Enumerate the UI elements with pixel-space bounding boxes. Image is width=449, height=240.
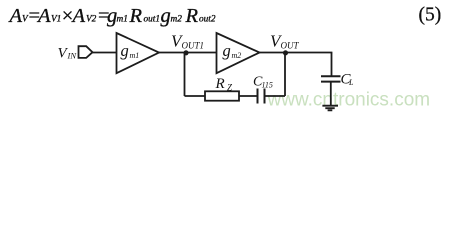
svg-text:V2: V2 (86, 15, 97, 25)
svg-text:m2: m2 (171, 15, 183, 25)
svg-text:=: = (29, 5, 41, 27)
svg-text:www.cntronics.com: www.cntronics.com (267, 90, 431, 111)
svg-text:out2: out2 (199, 15, 216, 25)
svg-text:m1: m1 (117, 15, 128, 25)
svg-text:R: R (129, 5, 143, 27)
svg-text:out1: out1 (144, 15, 161, 25)
svg-text:OUT1: OUT1 (182, 41, 205, 51)
svg-text:m2: m2 (232, 51, 242, 60)
svg-text:(5): (5) (419, 5, 442, 26)
svg-text:×: × (62, 5, 74, 27)
svg-text:=: = (98, 5, 110, 27)
svg-text:g: g (161, 5, 171, 27)
svg-text:m1: m1 (130, 51, 140, 60)
svg-text:R: R (215, 76, 225, 92)
svg-text:L: L (348, 78, 354, 87)
svg-text:A: A (8, 5, 23, 27)
svg-text:g: g (121, 41, 129, 60)
svg-text:IN: IN (67, 51, 78, 61)
svg-text:115: 115 (262, 81, 273, 90)
svg-text:R: R (185, 5, 199, 27)
svg-text:V1: V1 (51, 15, 61, 25)
svg-text:OUT: OUT (281, 41, 300, 51)
svg-text:g: g (223, 41, 231, 60)
